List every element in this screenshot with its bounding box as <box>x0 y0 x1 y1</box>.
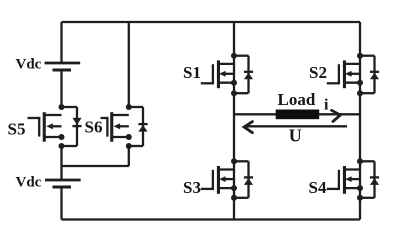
wire top rail <box>62 21 361 23</box>
wire bottom link S5 to S6 <box>62 165 129 167</box>
node S2 diode bottom junction <box>357 90 363 96</box>
wire S6 leg from top rail <box>128 22 130 107</box>
svg-text:S2: S2 <box>309 63 327 82</box>
wire left leg to top battery <box>60 22 62 63</box>
node S5 drain junction <box>59 104 65 110</box>
svg-text:Vdc: Vdc <box>16 57 42 73</box>
wire S5 diode bottom link <box>62 145 78 147</box>
wire S6 diode bottom link <box>129 145 143 147</box>
transistor S1 (MOSFET) <box>201 60 234 88</box>
transistor S6 (MOSFET) <box>101 112 129 142</box>
wire S3 diode branch <box>247 161 249 198</box>
transistor S4 (MOSFET) <box>327 166 360 194</box>
node S3 drain junction <box>231 158 237 164</box>
wire S2 diode bottom link <box>360 92 375 94</box>
diode D2 (anti-parallel of S2, cathode at top) <box>370 72 379 80</box>
wire S6 source to bottom link <box>128 146 130 166</box>
wire S5 source to bottom junction <box>60 146 62 166</box>
battery Vdc (bottom) <box>45 180 81 187</box>
diode D5 (anti-parallel of S5, cathode at bottom) <box>72 118 81 126</box>
svg-text:S4: S4 <box>309 178 327 197</box>
wire S6 diode branch <box>142 107 144 146</box>
svg-text:S1: S1 <box>183 63 201 82</box>
wire bottom battery to bottom rail <box>60 187 62 220</box>
node S2 source junction <box>357 80 363 86</box>
arrow current direction i <box>332 110 341 121</box>
load (black block) <box>276 110 320 120</box>
node S6 source junction <box>126 134 132 140</box>
wire S6 diode top link <box>129 106 143 108</box>
wire S4 diode bottom link <box>360 197 375 199</box>
wire S1 diode branch <box>247 56 249 93</box>
node S1 drain junction <box>231 53 237 59</box>
wire S5 diode branch <box>76 107 78 146</box>
transistor S5 (MOSFET) <box>28 112 62 142</box>
wire load branch <box>234 113 360 115</box>
svg-text:S6: S6 <box>85 118 103 137</box>
svg-text:Load: Load <box>278 90 316 109</box>
transistor S3 (MOSFET) <box>201 166 234 194</box>
wire S2 diode top link <box>360 55 375 57</box>
wire battery to S5 drain node <box>60 70 62 107</box>
node S4 drain junction <box>357 158 363 164</box>
arrow voltage U <box>244 122 347 133</box>
node S6 diode bottom junction <box>126 143 132 149</box>
svg-text:S5: S5 <box>8 119 26 138</box>
node S5 source junction <box>59 134 65 140</box>
wire S4 diode branch <box>373 161 375 198</box>
svg-text:Vdc: Vdc <box>16 175 42 191</box>
wire S1 diode bottom link <box>234 92 249 94</box>
node S4 diode bottom junction <box>357 195 363 201</box>
node S1 source junction <box>231 80 237 86</box>
node S1 diode bottom junction <box>231 90 237 96</box>
wire bridge left leg <box>233 22 235 220</box>
node S4 source junction <box>357 185 363 191</box>
wire bridge right leg <box>359 22 361 220</box>
svg-text:S3: S3 <box>183 178 201 197</box>
wire S3 diode top link <box>234 160 249 162</box>
wire bottom rail <box>62 218 361 220</box>
wire S4 diode top link <box>360 160 375 162</box>
wire S3 diode bottom link <box>234 197 249 199</box>
diode D6 (anti-parallel of S6, cathode at top) <box>138 124 147 132</box>
wire S1 diode top link <box>234 55 249 57</box>
wire S2 diode branch <box>373 56 375 93</box>
wire junction to bottom battery <box>60 166 62 180</box>
wire S5 diode top link <box>62 106 78 108</box>
node S5 diode bottom junction <box>59 143 65 149</box>
node S6 drain junction <box>126 104 132 110</box>
svg-text:U: U <box>289 125 302 145</box>
node S2 drain junction <box>357 53 363 59</box>
svg-text:i: i <box>324 97 329 114</box>
diode D1 (anti-parallel of S1, cathode at top) <box>244 72 253 80</box>
diode D3 (anti-parallel of S3, cathode at top) <box>244 177 253 185</box>
transistor S2 (MOSFET) <box>327 60 360 88</box>
battery Vdc (top) <box>45 63 81 70</box>
diode D4 (anti-parallel of S4, cathode at top) <box>370 177 379 185</box>
node S3 source junction <box>231 185 237 191</box>
node S3 diode bottom junction <box>231 195 237 201</box>
